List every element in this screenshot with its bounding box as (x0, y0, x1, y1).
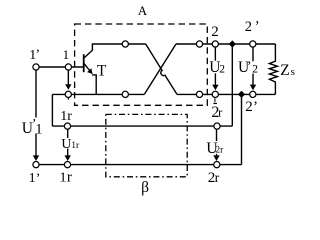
svg-text:1r: 1r (71, 141, 80, 151)
svg-text:β: β (141, 179, 149, 196)
svg-text:U: U (61, 137, 71, 152)
svg-text:r: r (215, 171, 220, 186)
svg-text:2: 2 (245, 99, 253, 115)
svg-text:’: ’ (253, 99, 258, 115)
svg-text:2: 2 (245, 19, 252, 35)
svg-text:’: ’ (247, 58, 252, 73)
svg-text:r: r (218, 105, 223, 120)
svg-text:’: ’ (255, 18, 260, 34)
svg-text:A: A (138, 3, 148, 18)
svg-text:r: r (67, 170, 72, 186)
svg-text:’: ’ (36, 48, 41, 63)
svg-text:T: T (97, 62, 107, 79)
svg-text:Z: Z (280, 62, 289, 79)
svg-text:1: 1 (35, 121, 42, 137)
svg-text:s: s (291, 66, 295, 78)
svg-text:1: 1 (60, 171, 67, 186)
svg-text:1: 1 (63, 47, 70, 62)
svg-text:1r: 1r (60, 109, 72, 124)
svg-text:2: 2 (211, 24, 219, 40)
svg-text:2r: 2r (215, 146, 224, 156)
svg-text:’: ’ (36, 172, 41, 187)
svg-text:1: 1 (29, 171, 36, 186)
svg-text:2: 2 (252, 64, 258, 76)
svg-text:2: 2 (219, 64, 225, 76)
